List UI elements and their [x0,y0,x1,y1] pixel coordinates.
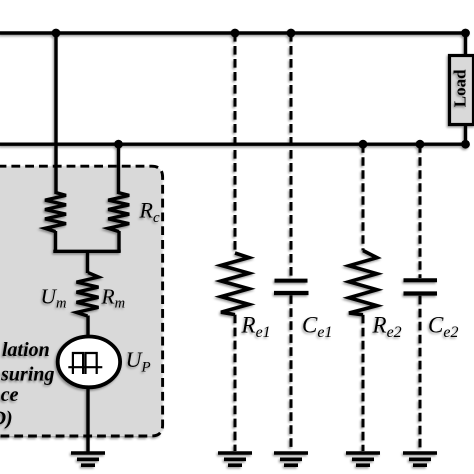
node on rail2 at Re2 branch [359,140,368,149]
wire rail 2 (lower bus) [0,142,467,145]
ground under Ce2 [403,453,437,465]
wire Rm to pulse source [86,316,89,338]
dashed wire Ce2 to ground [419,296,422,451]
svg-text:suring: suring [0,363,54,385]
dashed wire Ce1 to ground [290,295,293,451]
dashed wire Re1 to ground [234,315,237,451]
pulse waveform symbol [68,353,102,374]
node on rail2 at Ce2 branch [416,140,425,149]
capacitor Ce1 [274,281,309,293]
svg-text:ce: ce [1,384,19,406]
ground under Re2 [346,453,380,465]
wire left resistor to bottom joint [54,231,57,252]
IMD dashed gray box [0,166,163,436]
wire load to rail2 [464,124,467,144]
resistor left of Rc pair [45,193,66,232]
load box [450,56,474,125]
resistor Re2 [349,251,377,315]
ground under pulse source [71,453,105,465]
ground under Re1 [218,453,252,465]
svg-text:(IMD): (IMD) [0,407,13,429]
pulse voltage source UP (ellipse) [58,337,120,388]
wire pulse source to ground [86,387,89,452]
wire rail 1 (top bus) [0,31,467,35]
dashed wire rail2 to Re2 [362,144,365,250]
label IMD text (clipped at left edge): Insulation Measuring Device (IMD) [0,339,55,429]
wire from rail2 down to resistor Rc [117,144,120,194]
dashed wire rail1 to Ce1 [290,33,293,279]
node on rail2 at Rc branch [114,140,123,149]
node on rail1 at Ce1 branch [287,29,296,38]
dashed wire Re2 to ground [362,315,365,451]
svg-text:lation: lation [2,339,50,361]
svg-text:Load: Load [450,69,469,107]
capacitor Ce2 [404,280,438,293]
node on rail2 at load branch [461,140,470,149]
wire rail1 to load [464,33,467,56]
wire from rail1 down to left coupling resistor [54,33,57,194]
resistor Rm [77,273,99,316]
wire joining the two coupling resistors [53,250,120,253]
node on rail1 at left branch [52,29,61,38]
wire center tap down to Rm [86,251,89,273]
ground under Ce1 [274,453,308,465]
dashed wire rail1 to Re1 [234,33,237,253]
wire Rc to bottom joint [117,231,120,252]
node on rail1 at load branch [461,29,470,38]
dashed wire rail2 to Ce2 [419,144,422,278]
resistor Re1 [221,253,249,315]
node on rail1 at Re1 branch [231,29,240,38]
resistor Rc [108,193,129,232]
